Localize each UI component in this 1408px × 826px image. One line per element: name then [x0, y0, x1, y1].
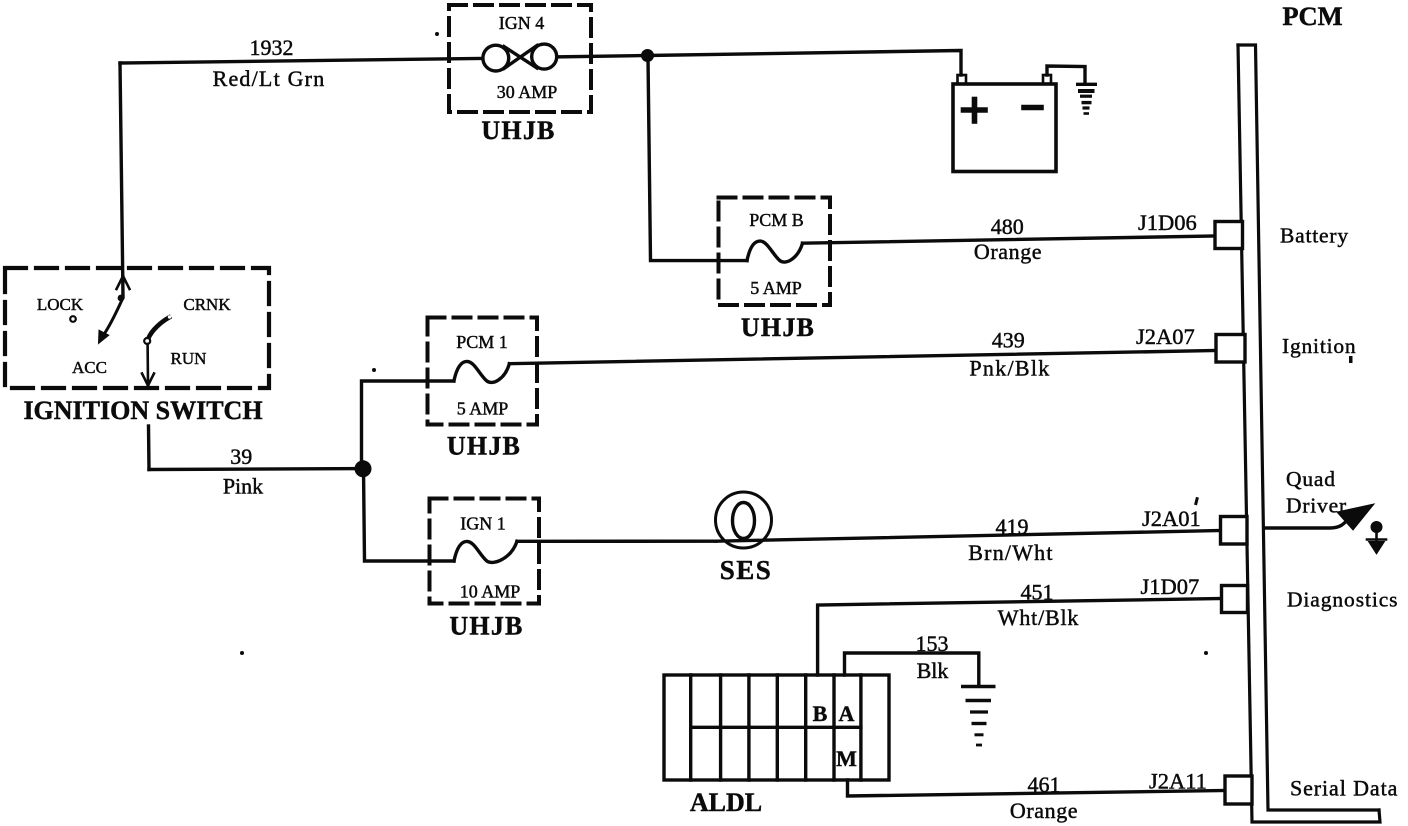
svg-text:IGN 4: IGN 4	[499, 13, 545, 33]
PCM connector body (double-line bar with bottom arm)	[1238, 45, 1380, 822]
junction node B	[354, 460, 371, 477]
ignition switch RUN contact circle	[144, 338, 150, 344]
wire 439 from fuse PCM 1 to pin J2A07	[509, 350, 1216, 363]
wire 39 Pink to junction node B	[149, 467, 363, 471]
wire 451 from ALDL pin B to pin J1D07	[818, 599, 1223, 676]
wire 153 from ALDL pin A to ground	[844, 653, 978, 685]
quad driver output wire and arrow	[1266, 504, 1374, 530]
wire ignition switch output below label	[147, 426, 151, 470]
fuse PCM 1 dashed box	[427, 317, 537, 424]
svg-text:SES: SES	[720, 555, 773, 585]
ignition switch pivot dot	[118, 295, 125, 302]
svg-text:30 AMP: 30 AMP	[497, 82, 558, 102]
svg-text:UHJB: UHJB	[447, 431, 521, 460]
svg-text:Diagnostics: Diagnostics	[1287, 588, 1398, 612]
svg-text:PCM B: PCM B	[749, 210, 804, 230]
pin J1D07	[1221, 586, 1247, 613]
pin J2A01	[1220, 517, 1247, 545]
quad driver continuation symbol (dot and down arrow)	[1367, 521, 1386, 554]
ALDL connector grid	[664, 675, 889, 780]
svg-text:1932: 1932	[250, 35, 294, 60]
svg-text:UHJB: UHJB	[481, 116, 555, 145]
svg-text:451: 451	[1020, 580, 1053, 605]
svg-text:5 AMP: 5 AMP	[750, 278, 802, 298]
junction node A	[641, 49, 654, 62]
wire 461 from ALDL pin M to pin J2A11	[847, 780, 1226, 796]
svg-text:39: 39	[230, 444, 252, 469]
svg-text:ACC: ACC	[72, 358, 107, 377]
svg-text:Battery: Battery	[1280, 224, 1349, 248]
fuse PCM B dashed box	[719, 198, 831, 306]
wire 1932 horizontal from ignition switch to fuse IGN4	[120, 58, 490, 63]
wire 480 from fuse PCM B to pin J1D06	[803, 236, 1216, 243]
wire junction node B down to fuse IGN 1	[363, 469, 454, 561]
svg-text:J2A11: J2A11	[1149, 769, 1207, 794]
svg-text:PCM: PCM	[1282, 1, 1342, 31]
svg-text:J1D06: J1D06	[1138, 210, 1197, 235]
svg-text:CRNK: CRNK	[183, 295, 231, 314]
wire from fuse IGN 1 to SES lamp	[517, 539, 716, 543]
fuse IGN4 dashed box	[449, 5, 591, 112]
ignition switch wire down with arrowhead	[142, 344, 154, 386]
ignition switch dashed box	[5, 268, 269, 388]
wire battery negative to ground	[1047, 66, 1085, 83]
fuse IGN 1 dashed box	[429, 498, 539, 603]
wire 419 from SES lamp to pin J2A01	[716, 531, 1221, 542]
svg-text:PCM 1: PCM 1	[456, 332, 508, 352]
scan specks	[240, 32, 1353, 655]
wire 1932 from fuse IGN4 to junction node A	[550, 55, 647, 57]
svg-text:Ignition: Ignition	[1282, 334, 1356, 358]
svg-text:Pink: Pink	[223, 473, 263, 498]
svg-text:10 AMP: 10 AMP	[460, 581, 521, 601]
svg-text:Brn/Wht: Brn/Wht	[968, 540, 1053, 565]
svg-text:419: 419	[995, 514, 1028, 539]
svg-text:Orange: Orange	[974, 239, 1042, 264]
svg-text:Driver: Driver	[1286, 494, 1347, 518]
svg-text:ALDL: ALDL	[690, 788, 762, 817]
svg-text:153: 153	[915, 631, 948, 656]
battery B+	[953, 75, 1056, 172]
svg-text:Orange: Orange	[1010, 798, 1078, 823]
svg-text:Quad: Quad	[1286, 467, 1336, 491]
svg-text:J2A01: J2A01	[1142, 506, 1201, 531]
svg-text:J2A07: J2A07	[1136, 324, 1195, 349]
svg-text:480: 480	[991, 214, 1024, 239]
wire 1932 vertical drop to ignition switch	[120, 63, 123, 297]
ignition switch CRNK contact notch	[168, 315, 171, 318]
svg-text:IGN 1: IGN 1	[460, 513, 506, 533]
svg-text:J1D07: J1D07	[1140, 574, 1199, 599]
fuse IGN 1 element (wavy link)	[454, 541, 517, 562]
ground (ALDL 153 Blk)	[961, 687, 996, 746]
wire junction node A to battery positive	[648, 50, 962, 75]
svg-text:439: 439	[992, 328, 1025, 353]
svg-text:UHJB: UHJB	[449, 611, 523, 640]
SES indicator lamp	[715, 492, 771, 548]
svg-text:Red/Lt Grn: Red/Lt Grn	[213, 66, 326, 91]
ignition switch blade CRNK-RUN	[149, 317, 170, 338]
pin J2A07	[1216, 335, 1245, 363]
wire junction node B up to fuse PCM 1	[361, 381, 453, 469]
svg-text:LOCK: LOCK	[37, 295, 84, 314]
svg-text:UHJB: UHJB	[741, 313, 815, 342]
wire junction node A down to fuse PCM B	[648, 58, 747, 261]
ignition switch LOCK contact dot	[70, 316, 76, 322]
svg-text:A: A	[839, 701, 855, 726]
svg-text:Wht/Blk: Wht/Blk	[998, 605, 1079, 630]
svg-text:RUN: RUN	[171, 349, 207, 368]
svg-text:Serial Data: Serial Data	[1290, 776, 1398, 801]
svg-text:B: B	[813, 701, 828, 726]
ignition switch pole up-arrow	[117, 276, 130, 289]
svg-text:461: 461	[1027, 772, 1060, 797]
svg-text:Pnk/Blk: Pnk/Blk	[969, 356, 1050, 381]
svg-text:Blk: Blk	[917, 658, 949, 683]
svg-text:M: M	[836, 746, 857, 771]
ignition switch blade to ACC with arrowhead	[99, 301, 122, 344]
fuse IGN 4 element (two circles with crossing)	[483, 44, 557, 71]
fuse PCM 1 element (wavy link)	[454, 361, 510, 382]
svg-text:IGNITION SWITCH: IGNITION SWITCH	[23, 396, 262, 425]
pin J2A11	[1225, 776, 1252, 804]
svg-text:5 AMP: 5 AMP	[457, 398, 509, 418]
fuse PCM B element (wavy link)	[747, 241, 803, 262]
ground (battery)	[1076, 84, 1097, 113]
pin J1D06	[1215, 222, 1243, 249]
